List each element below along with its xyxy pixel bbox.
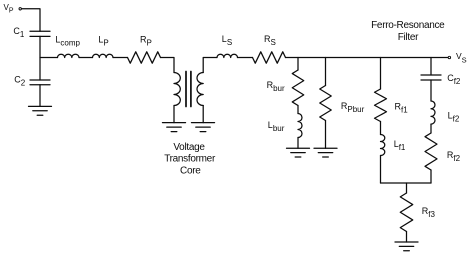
svg-text:LP: LP [98,34,108,47]
wire primary winding to ground [173,106,175,123]
svg-text:Ferro-Resonance: Ferro-Resonance [371,20,445,31]
transformer secondary winding [197,73,203,106]
svg-text:Rbur: Rbur [267,80,285,93]
svg-text:Lcomp: Lcomp [55,35,80,48]
wire Rf2 to bottom rail [430,170,432,183]
svg-text:VS: VS [456,51,467,65]
ground (transformer primary) [163,123,186,132]
svg-text:LS: LS [222,34,232,47]
wire Lbur to ground [297,138,299,149]
wire C2 to ground [39,85,41,107]
node VS terminal [448,56,450,58]
wire main node to Lcomp [40,57,58,59]
inductor LP [93,54,113,57]
svg-text:Filter: Filter [398,32,419,43]
wire C1 to C2 [39,36,41,80]
wire Rf1 to Lf1 [380,122,382,135]
svg-text:Rf3: Rf3 [422,206,436,219]
svg-text:VP: VP [4,3,14,14]
wire node to Rbur [297,58,299,71]
wire Cf2 to Lf2 [430,80,432,101]
ground (below Lbur) [287,148,310,157]
svg-text:RP: RP [140,34,152,47]
wire rail to Rf3 [406,183,408,193]
resistor Rf2 [425,133,437,170]
node VP terminal [19,8,21,10]
ground (left, below C2) [29,106,52,115]
wire secondary winding to ground [202,106,204,123]
wire RP to transformer primary [161,58,175,73]
wire bottom rail [381,182,432,184]
svg-text:Voltage: Voltage [173,142,205,153]
wire LS to RS [238,57,253,59]
svg-text:C1: C1 [13,26,25,39]
ground (below RPbur) [314,148,337,157]
wire node to Cf2 [430,58,432,76]
resistor RPbur [320,86,332,121]
resistor Rbur [292,70,304,106]
wire node to Rf1 [380,58,382,90]
svg-text:Transformer: Transformer [164,154,216,165]
wire LP to RP [113,57,128,59]
wire Lcomp to LP [79,57,93,59]
ground (below Rf3) [395,242,418,251]
inductor Lf2 [431,101,435,124]
wire Rbur to Lbur [297,106,299,114]
capacitor C1 [30,31,50,36]
wire secondary winding up to LS [203,58,217,73]
capacitor C2 [30,80,50,85]
wire Lf2 to Rf2 [430,124,432,133]
svg-text:Cf2: Cf2 [447,73,461,86]
transformer core [186,72,191,107]
svg-text:Lf1: Lf1 [394,139,406,152]
wire Lf1 to bottom rail [380,156,382,184]
label Ferro-Resonance Filter [371,20,445,43]
resistor Rf3 [400,193,413,232]
svg-text:Lf2: Lf2 [448,110,460,123]
inductor Lf1 [381,135,385,156]
svg-text:C2: C2 [14,74,26,87]
svg-text:Rf2: Rf2 [447,150,461,163]
wire RS to VS terminal [286,57,449,59]
svg-text:Core: Core [180,166,201,177]
svg-text:RS: RS [264,34,276,47]
svg-text:Lbur: Lbur [268,120,285,133]
transformer primary winding [174,73,180,106]
resistor RP [128,52,161,63]
capacitor Cf2 [421,75,441,80]
resistor RS [253,52,286,63]
svg-text:RPbur: RPbur [341,101,365,114]
svg-text:Rf1: Rf1 [395,102,409,115]
inductor Lbur [298,114,302,138]
wire Rf3 to ground [406,232,408,243]
resistor Rf1 [375,89,387,122]
label Voltage Transformer Core [164,142,216,177]
inductor Lcomp [58,54,80,57]
wire top from VP terminal [22,9,41,32]
wire RPbur to ground [325,121,327,149]
ground (transformer secondary) [192,123,215,132]
inductor LS [217,54,237,57]
wire node to RPbur [325,58,327,86]
